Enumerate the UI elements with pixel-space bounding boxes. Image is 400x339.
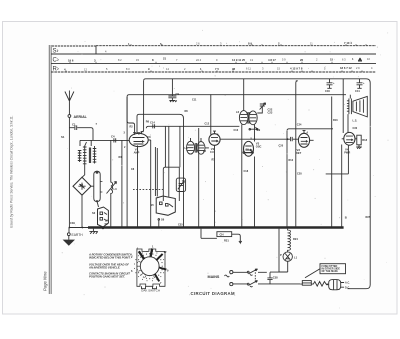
svg-text:C41: C41 [355, 89, 360, 93]
small lamp symbol in C rail [358, 58, 362, 61]
svg-text:C›: C› [53, 58, 59, 64]
IF transformer T2 coils [243, 79, 245, 111]
svg-text:C11: C11 [192, 99, 197, 102]
electrolytic capacitor C41 [357, 79, 363, 89]
svg-text:8 2: 8 2 [118, 58, 122, 62]
capacitor C1 (aerial series) [69, 125, 91, 130]
svg-text:26: 26 [300, 58, 304, 62]
svg-text:CIRCUIT DIAGRAM: CIRCUIT DIAGRAM [191, 291, 235, 296]
plate feet hooks [142, 286, 157, 288]
svg-text:D.C.: D.C. [345, 286, 350, 289]
svg-text:5 9: 5 9 [282, 58, 286, 62]
svg-text:Issued by Radio Press Service,: Issued by Radio Press Service, The Wirel… [10, 115, 14, 228]
svg-text:C9: C9 [176, 92, 180, 96]
svg-text:C35: C35 [178, 224, 183, 227]
fuse [302, 281, 311, 286]
capacitor C4 (inline on grid wire) [114, 138, 116, 142]
svg-text:AERIAL: AERIAL [74, 115, 88, 119]
verticals below T2 [241, 125, 243, 228]
svg-text:OF THE MAIN.: OF THE MAIN. [322, 270, 339, 273]
svg-text:C16: C16 [234, 129, 239, 132]
contact dot rings [134, 251, 165, 281]
variable capacitor VC1 [176, 178, 185, 191]
mains connector plug [329, 280, 341, 290]
loudspeaker with output transformer [349, 99, 352, 115]
variable coupling coil L3 with arrow [110, 140, 112, 180]
wire from V1 anode to coupling [148, 140, 151, 228]
svg-text:S5: S5 [151, 203, 155, 207]
svg-text:R21: R21 [224, 239, 229, 243]
svg-text:C23: C23 [268, 111, 273, 115]
fuse callout box [320, 264, 346, 274]
svg-text:C18: C18 [244, 170, 249, 173]
wire from C1 down to grid rail [91, 128, 93, 141]
svg-text:C12: C12 [205, 123, 210, 126]
svg-text:C28: C28 [297, 173, 302, 176]
grid rail wire [80, 139, 129, 141]
svg-text:14 9 11 25: 14 9 11 25 [232, 58, 246, 62]
svg-text:19 6: 19 6 [68, 59, 74, 63]
smoothing choke [201, 229, 217, 239]
svg-text:7 10 4: 7 10 4 [344, 41, 352, 45]
svg-text:4 12 9 7 8: 4 12 9 7 8 [290, 67, 303, 71]
svg-text:INDICATED BELOW THIS POINT.: INDICATED BELOW THIS POINT. [89, 256, 131, 260]
tube V2 (frequency changer) [209, 134, 220, 146]
svg-text:B: B [345, 216, 347, 220]
wires from V1 top pins up to HT rails [127, 97, 135, 133]
svg-text:CH: CH [220, 233, 224, 237]
svg-text:8 3: 8 3 [126, 67, 130, 71]
svg-text:2 9: 2 9 [356, 66, 360, 70]
svg-text:C30: C30 [353, 127, 358, 130]
wire diamond to switch [91, 186, 99, 207]
coil L1 (aerial transformer windings) [78, 142, 96, 177]
rotor circle [140, 257, 159, 276]
svg-text:18 6 7 12: 18 6 7 12 [340, 66, 352, 70]
svg-text:C39: C39 [70, 221, 75, 225]
svg-text:DET: DET [296, 151, 302, 155]
small jack circle [94, 171, 100, 201]
svg-text:6 3: 6 3 [342, 57, 346, 61]
svg-text:OAK SWITCH: OAK SWITCH [141, 289, 160, 293]
svg-text:R16: R16 [333, 119, 338, 122]
svg-text:PWR: PWR [344, 150, 350, 154]
svg-text:S8: S8 [246, 148, 250, 152]
svg-text:4 8 17: 4 8 17 [268, 58, 276, 62]
svg-text:S1: S1 [61, 135, 65, 139]
chassis bus [69, 227, 88, 229]
svg-text:MAINS: MAINS [208, 275, 220, 279]
gang dashed link [133, 189, 163, 191]
svg-text:C14: C14 [150, 121, 155, 125]
svg-text:AN INVERTED VEHICLE.: AN INVERTED VEHICLE. [88, 266, 121, 270]
trimmer capacitors [260, 103, 266, 110]
svg-text:F.C.: F.C. [210, 150, 215, 154]
svg-text:8 9: 8 9 [248, 42, 252, 46]
svg-text:C40: C40 [325, 89, 330, 93]
scattered component value labels [96, 99, 358, 227]
rotor radial ticks [138, 261, 155, 278]
svg-text:R12: R12 [289, 159, 294, 162]
tall coil L2 [96, 200, 98, 202]
svg-text:C1: C1 [72, 123, 76, 127]
IF transformer T1 coils [187, 141, 195, 154]
svg-text:15: 15 [330, 58, 334, 62]
AVC / AF verticals [286, 131, 288, 228]
svg-text:EARTH: EARTH [72, 233, 84, 237]
svg-text:C38: C38 [273, 276, 278, 280]
svg-text:C24: C24 [297, 124, 302, 127]
rotary switch plate [137, 249, 165, 286]
svg-text:S4: S4 [105, 219, 109, 223]
svg-text:21: 21 [163, 57, 167, 61]
earth terminal [68, 228, 70, 233]
rail tick numerals [64, 41, 354, 71]
switch arms (thick) [139, 251, 144, 259]
svg-text:22 4: 22 4 [196, 58, 202, 62]
aerial down-lead wire [68, 118, 70, 228]
svg-text:S6: S6 [161, 218, 165, 222]
svg-text:98: 98 [232, 67, 236, 71]
dropper resistor zigzag [311, 282, 328, 287]
aerial [65, 91, 74, 115]
HT rail horizontals [144, 79, 371, 289]
svg-text:6 11: 6 11 [246, 67, 251, 71]
svg-text:C20: C20 [279, 145, 284, 148]
schematic left border (double rule) [49, 45, 51, 294]
capacitor C5 to chassis (top) [168, 79, 176, 102]
svg-text:C4: C4 [111, 135, 115, 139]
chassis ground symbol [89, 229, 97, 234]
tube V1 (triode, first amp) [129, 133, 148, 146]
svg-text:AMP: AMP [134, 151, 140, 155]
gang tuning condenser box [163, 167, 179, 201]
tube V3b (detector/AF) [298, 133, 309, 147]
tube V4 (output pentode) [344, 132, 355, 145]
wavechange switch box S2 [98, 207, 109, 227]
long verticals mid section [198, 128, 200, 228]
svg-text:L.S.: L.S. [353, 119, 358, 123]
on/off switch blades [233, 269, 267, 275]
svg-text:Page Nine: Page Nine [43, 271, 48, 291]
svg-text:R6: R6 [146, 120, 150, 124]
tube V3a (oscillator) [244, 141, 254, 156]
electrolytic capacitor C40 [327, 79, 333, 89]
detector diamond TH [73, 177, 91, 195]
svg-text:R24: R24 [293, 237, 298, 241]
svg-text:S2: S2 [92, 211, 96, 215]
capacitor C38 across mains [267, 272, 272, 284]
svg-text:2 6: 2 6 [196, 42, 200, 46]
cathode resistor R18 [357, 135, 361, 145]
rotary switch note text [88, 253, 133, 279]
svg-text:7 5: 7 5 [215, 67, 219, 71]
wire verticals left section [79, 140, 81, 146]
dial lamp / barretter [288, 229, 291, 252]
rail tick pips [66, 44, 366, 72]
svg-text:TH: TH [80, 183, 84, 187]
selector switch box S3 [156, 196, 175, 215]
svg-text:P: P [280, 253, 282, 257]
junction dot below switch [102, 227, 104, 229]
svg-text:OSC: OSC [256, 145, 262, 149]
svg-text:POSITION GANG NEXT SET.: POSITION GANG NEXT SET. [89, 275, 125, 279]
svg-text:R25: R25 [366, 215, 371, 219]
contact S7 between rails [244, 150, 253, 153]
svg-text:R18: R18 [362, 138, 367, 142]
svg-text:A.C.: A.C. [345, 282, 350, 285]
